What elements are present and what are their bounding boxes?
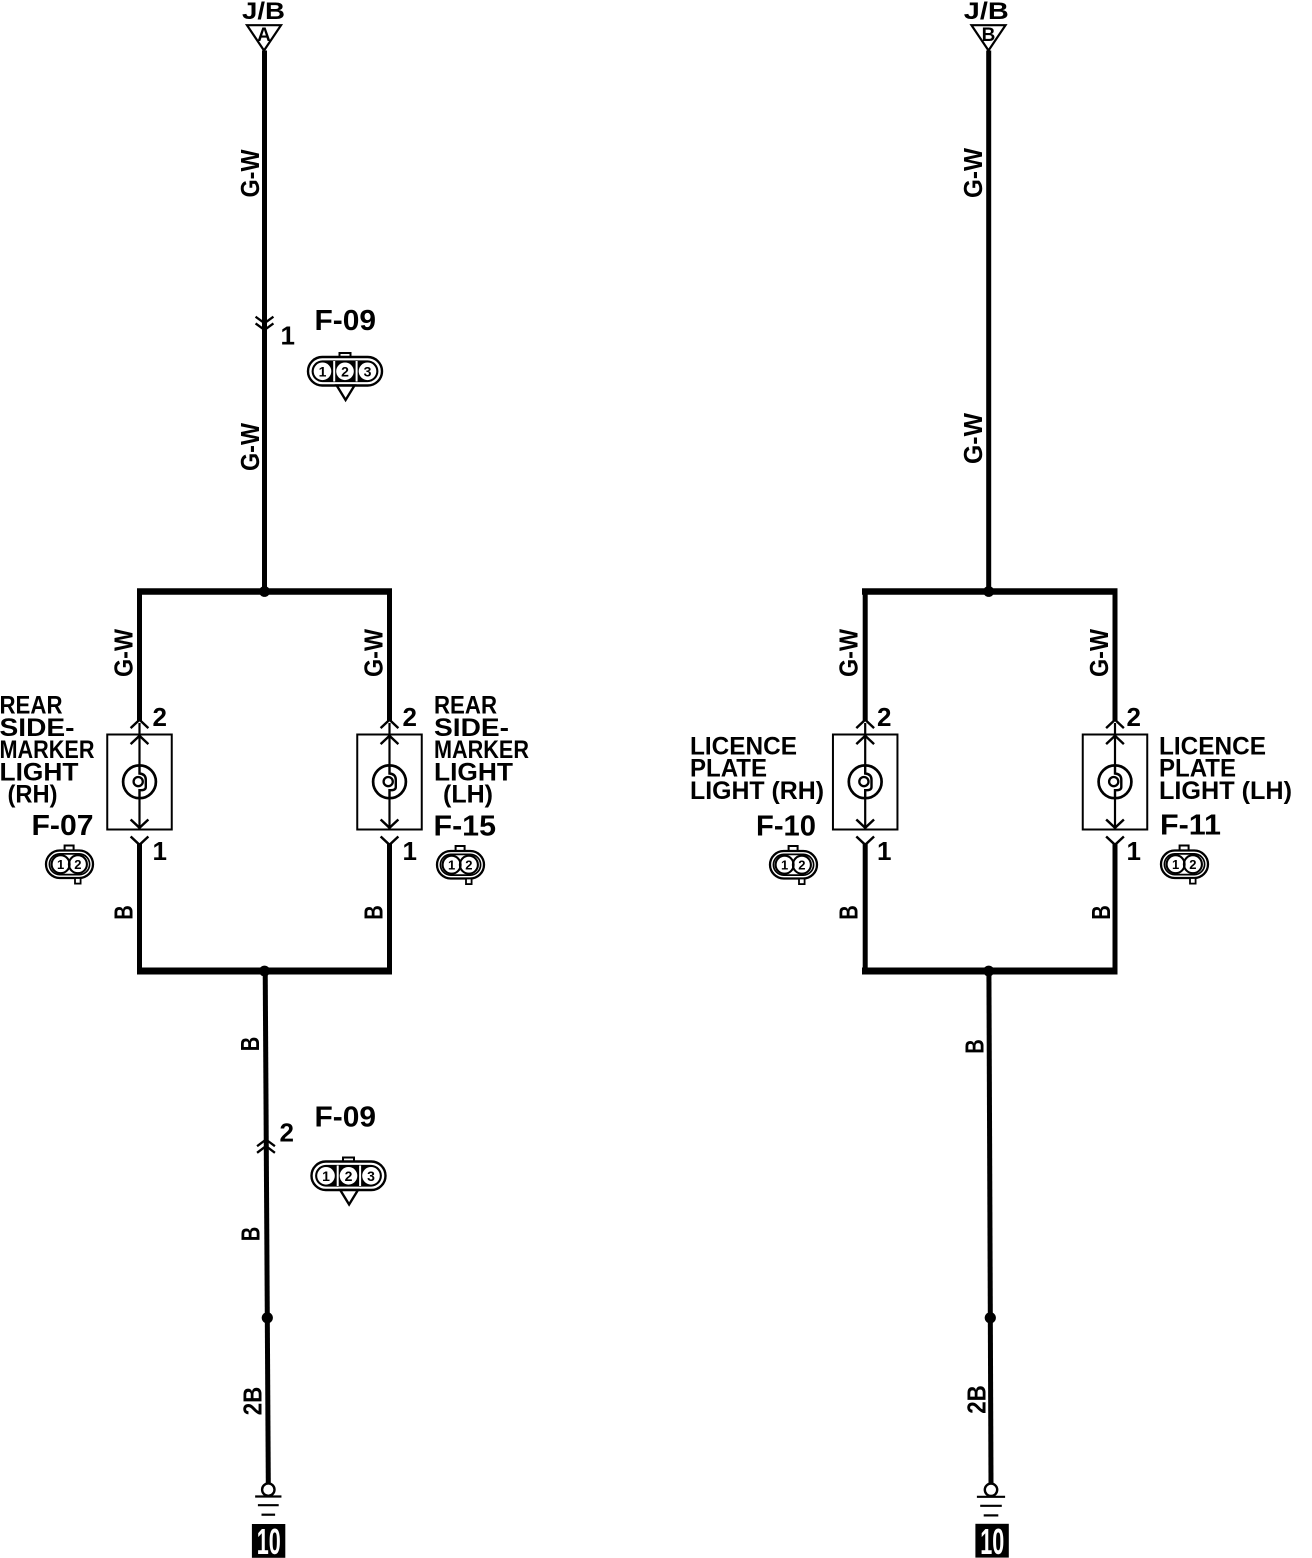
svg-text:G-W: G-W (1084, 629, 1114, 677)
inline connector F-09 pin 1 arrows (257, 317, 273, 323)
svg-text:G-W: G-W (958, 148, 988, 198)
bottom bus wire (left circuit) (137, 968, 392, 975)
svg-text:2: 2 (465, 858, 472, 873)
svg-text:10: 10 (980, 1521, 1004, 1558)
svg-text:F-09: F-09 (315, 305, 377, 337)
svg-text:2: 2 (1189, 857, 1196, 872)
svg-text:F-10: F-10 (756, 811, 816, 843)
connector icon F-11 (2-pin) (1180, 846, 1189, 852)
svg-text:2B: 2B (238, 1387, 268, 1416)
wire: lamp F-07 to bottom bus, B (137, 844, 142, 972)
rear side-marker light RH (lamp F-07) (107, 720, 172, 845)
svg-text:F-15: F-15 (434, 811, 497, 843)
wire: J/B A to top bus, G-W (262, 51, 267, 592)
lamp F-11 body (1083, 735, 1148, 830)
top bus wire (left circuit) (137, 588, 392, 595)
svg-text:G-W: G-W (834, 629, 864, 677)
svg-text:J/B: J/B (242, 0, 285, 25)
svg-text:B: B (834, 905, 864, 920)
svg-text:B: B (1086, 905, 1116, 920)
component label REAR SIDE-MARKER LIGHT (LH) (434, 692, 529, 809)
lamp F-07 pin 2 terminal arrows (132, 720, 148, 728)
svg-text:1: 1 (877, 836, 891, 866)
bulb F-11 (1099, 765, 1132, 798)
svg-text:1: 1 (448, 858, 455, 873)
connector icon F-07 (2-pin) (65, 846, 74, 852)
svg-text:2: 2 (798, 858, 805, 873)
junction block connector triangle A (247, 25, 281, 50)
wire: J/B B to top bus, G-W (986, 51, 991, 592)
svg-text:1: 1 (322, 1168, 330, 1184)
svg-text:2: 2 (345, 1168, 353, 1184)
svg-text:B: B (235, 1037, 265, 1052)
component label LICENCE PLATE LIGHT (LH) (1159, 732, 1292, 805)
bulb F-15 (373, 765, 406, 798)
svg-text:2: 2 (153, 702, 167, 732)
svg-text:G-W: G-W (235, 423, 265, 471)
svg-text:J/B: J/B (964, 0, 1009, 25)
svg-text:1: 1 (1127, 836, 1141, 866)
lamp F-07 pin 1 terminal arrows (132, 820, 148, 828)
svg-text:2: 2 (74, 857, 81, 872)
svg-text:G-W: G-W (109, 629, 139, 677)
wire: lamp F-11 to bottom bus, B (1113, 844, 1118, 972)
component label LICENCE PLATE LIGHT (RH) (690, 732, 824, 805)
junction node above ground wire (262, 1312, 273, 1323)
svg-text:1: 1 (1172, 857, 1179, 872)
svg-text:3: 3 (367, 1168, 375, 1184)
lamp F-07 body (107, 735, 172, 830)
svg-text:B: B (236, 1227, 266, 1242)
wire: left branch G-W down to lamp F-07 (137, 589, 142, 722)
junction block connector triangle B (972, 25, 1006, 50)
svg-text:3: 3 (364, 363, 372, 379)
lamp F-15 body (357, 735, 422, 830)
svg-text:(RH): (RH) (8, 781, 58, 809)
lamp F-10 body (833, 735, 898, 830)
bulb F-07 (123, 765, 156, 798)
wire: left branch G-W down to lamp F-10 (863, 589, 868, 722)
svg-text:B: B (982, 25, 996, 46)
rear side-marker light LH (lamp F-15) (357, 720, 422, 845)
lamp F-15 pin 1 terminal arrows (382, 820, 398, 828)
svg-text:F-11: F-11 (1160, 810, 1221, 842)
connector icon F-09 bottom (3-pin) (343, 1158, 354, 1164)
svg-text:LIGHT (LH): LIGHT (LH) (1159, 777, 1292, 805)
ground reference box 10 (left) (252, 1521, 285, 1558)
lamp F-10 pin 2 terminal arrows (857, 720, 873, 728)
ground symbol (left) (255, 1483, 281, 1514)
lamp F-10 pin 1 terminal arrows (857, 820, 873, 828)
lamp F-15 pin 2 terminal arrows (382, 720, 398, 728)
svg-text:G-W: G-W (958, 413, 988, 464)
licence plate light RH (lamp F-10) (833, 720, 898, 845)
wire: right branch G-W down to lamp F-11 (1113, 589, 1118, 722)
junction node on bottom bus (983, 966, 994, 977)
svg-text:B: B (960, 1039, 990, 1054)
svg-text:2: 2 (280, 1118, 294, 1148)
wire: bottom bus to ground, B (989, 968, 991, 1484)
bulb F-10 (849, 765, 882, 798)
svg-text:B: B (109, 905, 139, 920)
svg-text:2: 2 (341, 363, 349, 379)
svg-text:LIGHT (RH): LIGHT (RH) (690, 777, 824, 805)
svg-text:1: 1 (403, 836, 417, 866)
svg-text:1: 1 (153, 836, 167, 866)
ground symbol (right) (977, 1484, 1005, 1516)
junction node on top bus (259, 586, 270, 597)
connector icon F-10 (2-pin) (789, 846, 798, 852)
junction node above ground wire (985, 1312, 996, 1323)
bottom bus wire (right circuit) (862, 968, 1118, 975)
wire: lamp F-15 to bottom bus, B (387, 844, 392, 972)
svg-text:1: 1 (319, 363, 327, 379)
wire: bottom bus to ground, B (265, 968, 268, 1483)
svg-text:G-W: G-W (359, 629, 389, 677)
inline connector F-09 pin 2 arrows (258, 1140, 274, 1146)
ground reference box 10 (right) (975, 1521, 1008, 1558)
svg-text:2: 2 (877, 702, 891, 732)
connector icon F-15 (2-pin) (456, 846, 465, 852)
svg-text:B: B (359, 905, 389, 920)
svg-text:1: 1 (281, 321, 295, 351)
component label REAR SIDE-MARKER LIGHT (RH) (0, 692, 95, 809)
svg-text:1: 1 (57, 857, 64, 872)
lamp F-11 pin 1 terminal arrows (1107, 820, 1123, 828)
licence plate light LH (lamp F-11) (1083, 720, 1148, 845)
svg-text:2: 2 (403, 702, 417, 732)
wire: right branch G-W down to lamp F-15 (387, 589, 392, 722)
top bus wire (right circuit) (862, 588, 1118, 595)
svg-text:10: 10 (257, 1521, 281, 1558)
lamp F-11 pin 2 terminal arrows (1107, 720, 1123, 728)
svg-text:A: A (257, 25, 271, 46)
svg-text:(LH): (LH) (443, 781, 493, 809)
wire: lamp F-10 to bottom bus, B (863, 844, 868, 972)
svg-text:1: 1 (781, 858, 788, 873)
junction node on bottom bus (259, 966, 270, 977)
connector icon F-09 (3-pin) (340, 353, 351, 359)
svg-text:2: 2 (1127, 702, 1141, 732)
svg-text:F-07: F-07 (32, 810, 94, 842)
svg-text:F-09: F-09 (315, 1102, 377, 1134)
svg-text:G-W: G-W (235, 149, 265, 197)
junction node on top bus (983, 586, 994, 597)
svg-text:2B: 2B (962, 1385, 992, 1414)
